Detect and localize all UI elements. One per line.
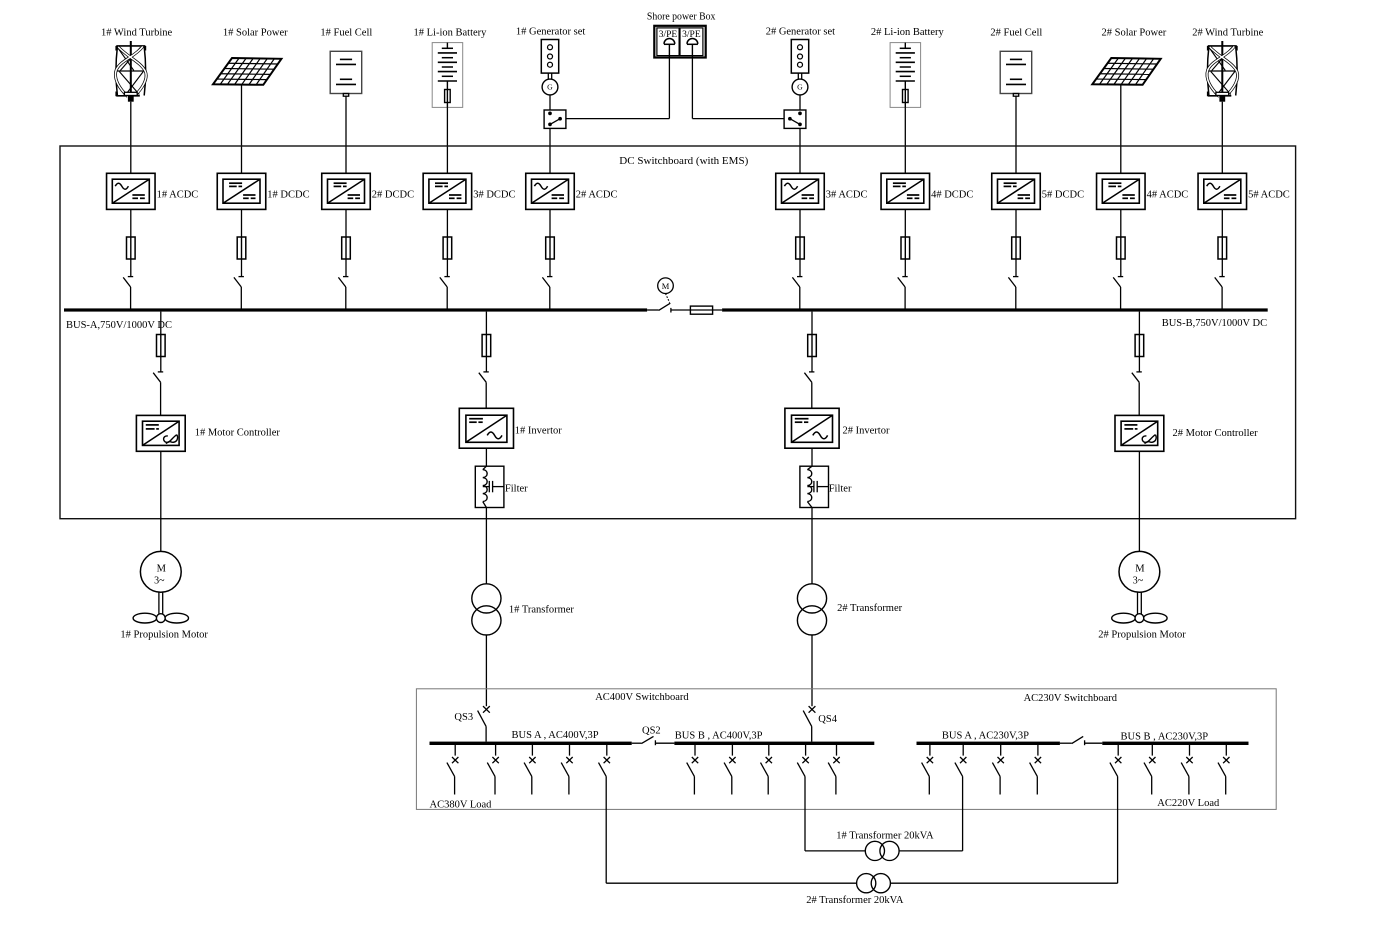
svg-text:AC230V Switchboard: AC230V Switchboard [1024, 693, 1118, 704]
svg-text:3~: 3~ [154, 575, 165, 586]
svg-text:1# Li-ion Battery: 1# Li-ion Battery [414, 27, 488, 38]
svg-text:AC380V Load: AC380V Load [430, 799, 493, 810]
svg-text:2# Li-ion Battery: 2# Li-ion Battery [871, 27, 945, 38]
svg-text:2# Motor Controller: 2# Motor Controller [1173, 428, 1259, 439]
svg-text:BUS B , AC230V,3P: BUS B , AC230V,3P [1121, 732, 1209, 743]
svg-text:2# Transformer 20kVA: 2# Transformer 20kVA [806, 895, 904, 906]
svg-text:4# ACDC: 4# ACDC [1147, 189, 1189, 200]
svg-text:1# Propulsion Motor: 1# Propulsion Motor [120, 630, 208, 641]
svg-text:2# Generator set: 2# Generator set [766, 27, 835, 38]
svg-text:1# Invertor: 1# Invertor [515, 426, 562, 437]
svg-text:QS2: QS2 [642, 726, 661, 737]
svg-text:Filter: Filter [829, 484, 852, 495]
svg-text:1# Wind Turbine: 1# Wind Turbine [101, 27, 172, 38]
svg-text:M: M [662, 281, 670, 291]
svg-text:5# ACDC: 5# ACDC [1248, 189, 1290, 200]
svg-text:BUS A , AC230V,3P: BUS A , AC230V,3P [942, 731, 1029, 742]
svg-text:QS3: QS3 [454, 712, 473, 723]
svg-text:AC220V Load: AC220V Load [1157, 798, 1220, 809]
svg-text:5# DCDC: 5# DCDC [1042, 189, 1084, 200]
svg-text:3~: 3~ [1133, 575, 1144, 586]
svg-text:2# Propulsion Motor: 2# Propulsion Motor [1098, 630, 1186, 641]
svg-text:BUS-A,750V/1000V DC: BUS-A,750V/1000V DC [66, 320, 172, 331]
svg-text:2# ACDC: 2# ACDC [576, 189, 618, 200]
svg-text:2# Wind Turbine: 2# Wind Turbine [1192, 27, 1263, 38]
svg-text:M: M [157, 563, 167, 574]
svg-text:1# ACDC: 1# ACDC [157, 189, 199, 200]
svg-text:G: G [797, 83, 803, 92]
svg-text:G: G [547, 83, 553, 92]
svg-text:3# ACDC: 3# ACDC [826, 189, 868, 200]
svg-text:M: M [1135, 563, 1145, 574]
svg-text:1# DCDC: 1# DCDC [267, 189, 309, 200]
svg-text:1# Transformer: 1# Transformer [509, 605, 575, 616]
svg-text:3# DCDC: 3# DCDC [473, 189, 515, 200]
svg-text:2# Transformer: 2# Transformer [837, 603, 903, 614]
svg-text:Shore power Box: Shore power Box [647, 12, 716, 23]
svg-text:1# Motor Controller: 1# Motor Controller [195, 427, 281, 438]
svg-text:2# Solar Power: 2# Solar Power [1102, 27, 1167, 38]
svg-text:2# Fuel Cell: 2# Fuel Cell [990, 27, 1042, 38]
svg-text:4# DCDC: 4# DCDC [931, 189, 973, 200]
svg-text:1# Fuel Cell: 1# Fuel Cell [320, 27, 372, 38]
svg-text:2# DCDC: 2# DCDC [372, 189, 414, 200]
svg-text:QS4: QS4 [818, 714, 837, 725]
svg-text:BUS B , AC400V,3P: BUS B , AC400V,3P [675, 731, 763, 742]
svg-text:1# Generator set: 1# Generator set [516, 27, 585, 38]
svg-text:BUS-B,750V/1000V DC: BUS-B,750V/1000V DC [1162, 318, 1267, 329]
svg-text:AC400V Switchboard: AC400V Switchboard [595, 692, 689, 703]
svg-text:2# Invertor: 2# Invertor [843, 426, 890, 437]
svg-text:BUS A , AC400V,3P: BUS A , AC400V,3P [512, 730, 599, 741]
svg-text:1# Transformer 20kVA: 1# Transformer 20kVA [836, 831, 934, 842]
svg-text:1# Solar Power: 1# Solar Power [223, 27, 288, 38]
svg-text:DC Switchboard (with EMS): DC Switchboard (with EMS) [619, 156, 749, 167]
svg-text:Filter: Filter [505, 484, 528, 495]
